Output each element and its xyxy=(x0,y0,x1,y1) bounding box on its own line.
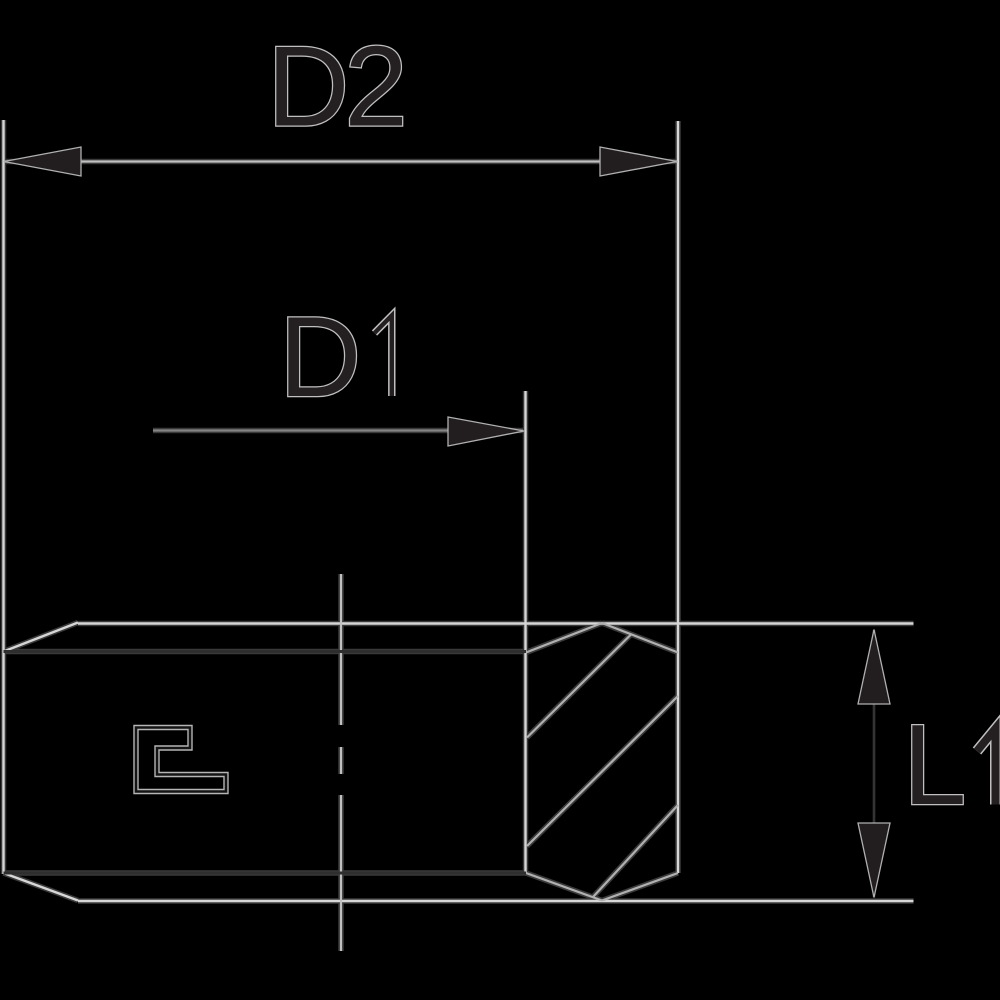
svg-text:L: L xyxy=(903,702,966,829)
svg-text:D: D xyxy=(279,294,361,421)
svg-text:D2: D2 xyxy=(267,24,408,151)
